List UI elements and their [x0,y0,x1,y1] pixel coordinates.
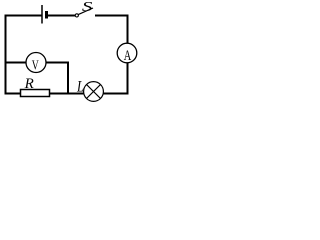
svg-text:R: R [24,76,34,92]
svg-text:V: V [32,59,39,74]
svg-text:L: L [76,79,84,96]
svg-text:A: A [124,48,132,64]
svg-text:S: S [82,0,93,15]
